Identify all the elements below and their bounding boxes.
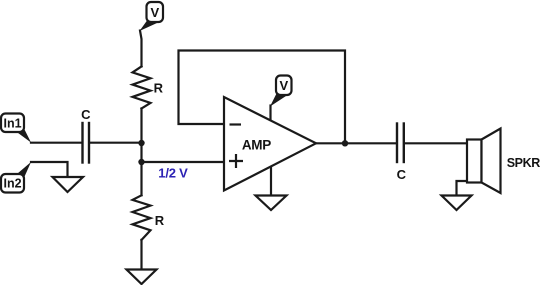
svg-text:R: R xyxy=(154,81,164,96)
svg-text:AMP: AMP xyxy=(242,137,271,152)
svg-text:1/2 V: 1/2 V xyxy=(158,166,188,181)
svg-text:In1: In1 xyxy=(3,117,21,131)
svg-text:In2: In2 xyxy=(3,177,21,191)
svg-text:V: V xyxy=(279,78,288,93)
svg-text:R: R xyxy=(155,213,165,228)
svg-text:V: V xyxy=(150,5,159,20)
svg-text:SPKR: SPKR xyxy=(507,156,540,170)
svg-text:C: C xyxy=(81,107,91,122)
svg-text:C: C xyxy=(397,167,407,182)
